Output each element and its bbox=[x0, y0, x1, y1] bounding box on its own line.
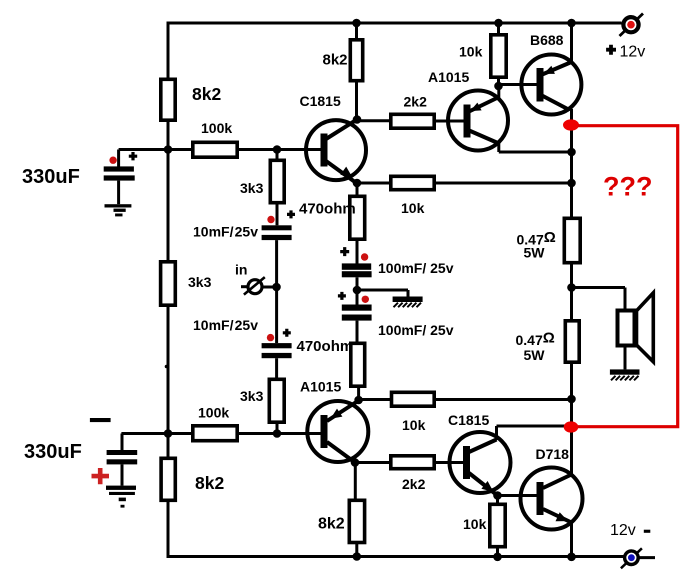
node junction A1015 collector bbox=[351, 458, 360, 467]
label in bbox=[235, 262, 247, 278]
wire A1015 emitter up bbox=[497, 85, 500, 99]
resistor 100k (bottom) bbox=[193, 426, 237, 441]
resistor 3k3 (lower middle) bbox=[269, 379, 284, 433]
node junction 100k / 3k3 bottom bbox=[273, 429, 282, 438]
polarity plus 10mF upper bbox=[287, 210, 295, 218]
wire bottom rail bbox=[168, 555, 624, 558]
node C1815 emitter junction bbox=[353, 179, 362, 188]
label 8k2 bottom-middle bbox=[318, 516, 345, 533]
wire emitter to 10k mid bbox=[357, 182, 389, 185]
svg-text:8k2: 8k2 bbox=[318, 516, 345, 533]
label 470ohm lower bbox=[297, 338, 354, 355]
node junction bottom rail / D718 bbox=[567, 553, 576, 562]
red wire loop bbox=[578, 126, 678, 427]
label 10k bottom-middle bbox=[402, 417, 426, 433]
wire top +12V rail bbox=[168, 22, 622, 25]
svg-text:5W: 5W bbox=[524, 347, 546, 363]
svg-text:12v: 12v bbox=[620, 44, 646, 61]
node junction speaker tap bbox=[567, 283, 576, 292]
svg-text:C1815: C1815 bbox=[448, 412, 489, 428]
polarity plus 100mF upper bbox=[340, 247, 349, 256]
label 100k top bbox=[201, 120, 232, 136]
wire A1015 collector to 2k2 bbox=[355, 461, 389, 464]
node junction between 100mF caps bbox=[353, 286, 362, 295]
transistor B688 (PNP) bbox=[521, 55, 581, 115]
svg-text:330uF: 330uF bbox=[22, 166, 80, 188]
label C1815 bottom bbox=[448, 412, 489, 428]
wire 10k middle to output rail bbox=[436, 182, 572, 185]
wire bottom rail right stub bbox=[639, 556, 656, 559]
polarity red dot 100mF lower bbox=[362, 296, 369, 303]
resistor 470ohm (upper) bbox=[350, 183, 365, 264]
node junction rail / 10k bottom bbox=[567, 395, 576, 404]
resistor 100k (top) bbox=[193, 142, 237, 157]
resistor 10k (middle) bbox=[391, 176, 434, 189]
wire D718 collector rail bbox=[570, 426, 573, 475]
ground (speaker, hatched) bbox=[610, 369, 640, 380]
transistor C1815 (bottom, NPN) bbox=[450, 432, 511, 496]
label 3k3 upper middle bbox=[240, 180, 264, 196]
svg-text:100k: 100k bbox=[201, 120, 232, 136]
polarity red dot 10mF upper bbox=[267, 216, 274, 223]
wire emitter node to D718 base bbox=[498, 494, 538, 497]
resistor 470ohm (lower) bbox=[351, 343, 365, 400]
label 2k2 bottom bbox=[402, 476, 426, 492]
label 100mF/25v lower bbox=[378, 322, 454, 338]
svg-text:470ohm: 470ohm bbox=[297, 338, 354, 355]
svg-text:8k2: 8k2 bbox=[323, 52, 348, 69]
svg-text:8k2: 8k2 bbox=[195, 473, 224, 493]
polarity plus 100mF lower bbox=[338, 292, 346, 300]
label 100mF/25v upper bbox=[378, 260, 454, 276]
speaker bbox=[618, 293, 654, 362]
node input junction bbox=[272, 283, 281, 292]
wire B688 collector / output rail upper bbox=[570, 109, 572, 217]
svg-text:10mF/ 25v: 10mF/ 25v bbox=[193, 224, 258, 240]
label 2k2 top bbox=[404, 94, 428, 110]
node junction top rail / B688 bbox=[567, 19, 576, 28]
node junction bottom rail / 8k2 bbox=[353, 552, 362, 561]
terminal 12v minus bbox=[621, 548, 642, 568]
label 330uF bottom bbox=[24, 441, 82, 463]
label 3k3 lower middle bbox=[240, 388, 264, 404]
node junction 10k / A1015 emitter / B688 base bbox=[494, 82, 503, 91]
capacitor 10mF/25v (lower) bbox=[262, 287, 292, 378]
node junction 100k / 3k3 bbox=[273, 145, 282, 154]
svg-text:3k3: 3k3 bbox=[240, 388, 264, 404]
label A1015 bottom bbox=[300, 379, 341, 395]
label 100k bottom bbox=[198, 405, 229, 421]
label 8k2 bottom-left bbox=[195, 473, 224, 493]
polarity plus 10mF lower bbox=[283, 329, 291, 337]
svg-text:100k: 100k bbox=[198, 405, 229, 421]
capacitor 330uF (top-left) bbox=[104, 166, 135, 204]
label ??? bbox=[603, 172, 652, 202]
left rail nub bbox=[165, 365, 169, 369]
red output node upper bbox=[563, 119, 579, 130]
wire 2k2 to C1815 base bbox=[436, 461, 464, 464]
wire 2k2 to A1015 base bbox=[436, 120, 465, 123]
node junction top rail / 10k bbox=[494, 19, 503, 28]
svg-text:100mF/ 25v: 100mF/ 25v bbox=[378, 322, 454, 338]
label minus 330uF bottom bbox=[90, 418, 111, 422]
label 470ohm upper bbox=[299, 201, 356, 218]
wire B688 emitter to top rail bbox=[570, 23, 573, 62]
label 10mF/25v lower bbox=[193, 317, 258, 333]
svg-text:3k3: 3k3 bbox=[188, 274, 212, 290]
svg-text:2k2: 2k2 bbox=[404, 94, 428, 110]
red output node lower bbox=[564, 421, 579, 432]
wire rail between 0.47 resistors bbox=[570, 265, 573, 320]
capacitor 10mF/25v (upper) bbox=[262, 205, 292, 288]
capacitor 100mF/25v (lower) bbox=[342, 305, 372, 342]
resistor 8k2 (top-left) bbox=[161, 79, 175, 120]
wire 330uF top feed bbox=[119, 150, 191, 167]
resistor 10k (top-right) bbox=[491, 23, 506, 85]
resistor 0.47ohm 5W (lower) bbox=[565, 321, 579, 362]
resistor 2k2 (bottom) bbox=[391, 456, 434, 469]
svg-text:0.47Ω: 0.47Ω bbox=[516, 329, 555, 348]
label 0.47ohm lower bbox=[516, 329, 555, 363]
label A1015 top bbox=[428, 69, 469, 85]
node junction left rail / 100k bottom bbox=[164, 429, 173, 438]
label 8k2 top-middle bbox=[323, 52, 348, 69]
wire mid node to ground bbox=[357, 290, 408, 297]
label D718 bbox=[536, 446, 570, 462]
ground (below 330uF top) bbox=[105, 204, 132, 216]
label 10k middle bbox=[401, 200, 425, 216]
node C1815 collector junction bbox=[353, 115, 362, 124]
transistor C1815 (top, NPN) bbox=[306, 120, 366, 184]
wire 10k bottom to rail bbox=[436, 398, 572, 401]
wire C1815 collector up to red node bbox=[497, 426, 572, 440]
svg-text:5W: 5W bbox=[524, 245, 546, 261]
svg-text:8k2: 8k2 bbox=[192, 84, 221, 104]
wire input terminal to node bbox=[263, 286, 277, 289]
resistor 3k3 (left rail) bbox=[161, 262, 176, 305]
svg-text:???: ??? bbox=[603, 172, 652, 202]
resistor 0.47ohm 5W (upper) bbox=[564, 218, 580, 262]
transistor A1015 (top, PNP) bbox=[448, 91, 508, 151]
label 3k3 left bbox=[188, 274, 212, 290]
svg-text:330uF: 330uF bbox=[24, 441, 82, 463]
svg-text:A1015: A1015 bbox=[428, 69, 469, 85]
polarity plus 330uF top bbox=[129, 152, 137, 160]
node junction C1815 emitter / D718 base / 10k bbox=[493, 491, 502, 500]
svg-text:10k: 10k bbox=[463, 516, 487, 532]
transistor A1015 (bottom-left, PNP) bbox=[307, 401, 368, 463]
svg-text:10k: 10k bbox=[401, 200, 425, 216]
wire A1015 collector to rail bbox=[499, 143, 572, 153]
wire 100k to C1815 base bbox=[239, 148, 322, 151]
node junction top rail / 8k2 bbox=[352, 19, 361, 28]
resistor 10k (bottom-middle horizontal) bbox=[392, 392, 435, 406]
svg-text:2k2: 2k2 bbox=[402, 476, 426, 492]
wire speaker feed bbox=[572, 288, 626, 309]
wire 100k bottom to A1015 base bbox=[239, 432, 322, 435]
label 330uF top bbox=[22, 166, 80, 188]
capacitor 100mF/25v (upper) bbox=[342, 263, 372, 304]
wire to B688 base bbox=[499, 83, 538, 86]
label 10mF/25v upper bbox=[193, 224, 258, 240]
wire left rail bbox=[167, 22, 170, 559]
node junction bottom rail / 10k bbox=[493, 553, 502, 562]
label B688 bbox=[530, 32, 564, 48]
transistor D718 (NPN) bbox=[521, 468, 583, 530]
svg-text:in: in bbox=[235, 262, 247, 278]
svg-text:12v: 12v bbox=[610, 522, 636, 539]
label C1815 top bbox=[300, 93, 341, 109]
label 8k2 top-left bbox=[192, 84, 221, 104]
label 10k bottom-right bbox=[463, 516, 487, 532]
label 12v minus bbox=[610, 522, 650, 539]
svg-text:100mF/ 25v: 100mF/ 25v bbox=[378, 260, 454, 276]
svg-text:10k: 10k bbox=[459, 44, 483, 60]
svg-text:D718: D718 bbox=[536, 446, 570, 462]
wire node to 10k bottom bbox=[359, 398, 390, 401]
ground (middle, hatched) bbox=[393, 297, 423, 308]
resistor 10k (bottom-right vertical) bbox=[490, 496, 505, 558]
node junction left rail / 100k bbox=[164, 145, 173, 154]
resistor 3k3 (upper middle) bbox=[270, 150, 284, 203]
resistor 8k2 (bottom-middle) bbox=[349, 463, 364, 557]
terminal +12v bbox=[620, 14, 644, 37]
wire D718 emitter to bottom rail bbox=[570, 522, 573, 557]
resistor 8k2 (bottom-left) bbox=[161, 458, 175, 500]
wire 330uF bottom feed bbox=[121, 434, 191, 451]
resistor 8k2 (top-middle) bbox=[350, 23, 362, 120]
ground (below 330uF bottom) bbox=[106, 486, 136, 508]
svg-text:3k3: 3k3 bbox=[240, 180, 264, 196]
capacitor 330uF (bottom-left) bbox=[107, 450, 138, 486]
polarity red plus 330uF bottom bbox=[92, 468, 110, 484]
label 10k top-right bbox=[459, 44, 483, 60]
label 0.47ohm upper bbox=[517, 229, 556, 261]
svg-text:10mF/ 25v: 10mF/ 25v bbox=[193, 317, 258, 333]
terminal input bbox=[241, 277, 265, 295]
svg-text:B688: B688 bbox=[530, 32, 564, 48]
wire speaker to ground bbox=[624, 348, 627, 370]
wire output rail lower bbox=[570, 364, 573, 475]
resistor 2k2 (top) bbox=[391, 114, 434, 128]
node A1015 collector / rail bbox=[567, 148, 576, 157]
polarity red dot 100mF upper bbox=[361, 253, 368, 260]
node junction 470ohm / A1015 emitter / 10k bbox=[354, 396, 363, 405]
svg-text:470ohm: 470ohm bbox=[299, 201, 356, 218]
svg-text:C1815: C1815 bbox=[300, 93, 341, 109]
svg-text:10k: 10k bbox=[402, 417, 426, 433]
polarity red dot 10mF lower bbox=[267, 334, 274, 341]
svg-text:A1015: A1015 bbox=[300, 379, 341, 395]
wire collector to 2k2 bbox=[357, 119, 389, 122]
node rail / 10k mid bbox=[567, 179, 576, 188]
polarity red dot 330uF top bbox=[109, 157, 116, 164]
label +12v bbox=[606, 44, 645, 61]
